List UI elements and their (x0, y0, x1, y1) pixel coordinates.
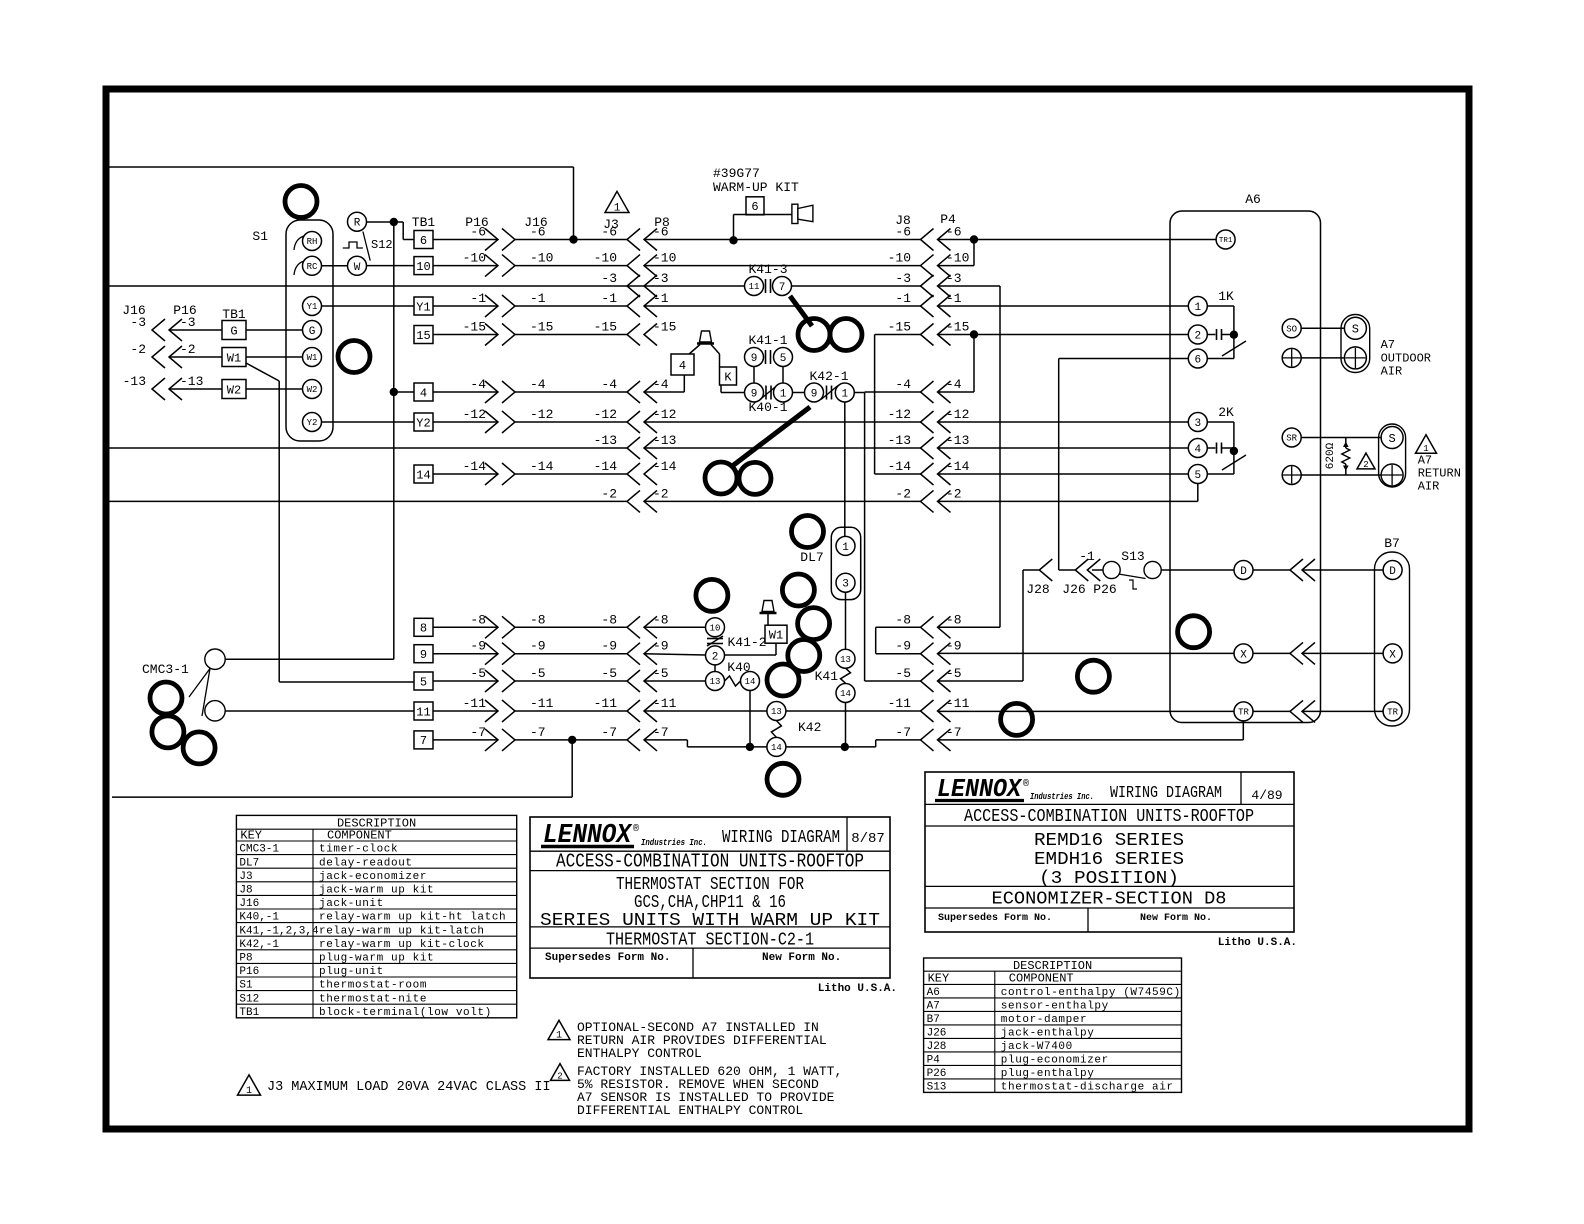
wire row -5 left (433, 680, 498, 682)
svg-text:10: 10 (416, 260, 430, 274)
svg-text:-15: -15 (946, 320, 969, 335)
horn connector warm-up kit (792, 204, 798, 223)
wire row -13 from frame (110, 447, 628, 449)
svg-text:W2: W2 (307, 385, 318, 395)
svg-text:REMD16 SERIES: REMD16 SERIES (1034, 831, 1184, 851)
svg-text:-11: -11 (463, 696, 487, 711)
svg-text:ECONOMIZER-SECTION D8: ECONOMIZER-SECTION D8 (992, 890, 1227, 910)
svg-text:-14: -14 (888, 459, 912, 474)
svg-text:-5: -5 (946, 666, 962, 681)
wire row -9 left (433, 653, 498, 655)
wire CMC3-1 bottom to block 11 (225, 710, 414, 712)
svg-text:1: 1 (842, 542, 849, 554)
svg-text:14: 14 (771, 743, 782, 753)
svg-text:K41: K41 (815, 669, 839, 684)
svg-text:RH: RH (307, 237, 318, 247)
svg-text:-15: -15 (594, 320, 617, 335)
svg-text:K41-2: K41-2 (727, 635, 766, 650)
svg-text:W1: W1 (307, 353, 318, 363)
svg-text:2: 2 (712, 651, 719, 663)
svg-text:AIR: AIR (1381, 365, 1403, 379)
svg-text:Litho U.S.A.: Litho U.S.A. (818, 983, 897, 995)
terminal block TB1 14 (414, 465, 433, 483)
terminal SO (1282, 319, 1301, 338)
svg-text:Y1: Y1 (307, 302, 318, 312)
terminal block 5 (414, 672, 433, 690)
terminal A6-5 (1188, 465, 1207, 484)
svg-text:6: 6 (751, 200, 758, 214)
svg-text:-8: -8 (601, 612, 617, 627)
svg-text:-12: -12 (888, 407, 911, 422)
bold circle left of A6 (1077, 660, 1109, 692)
svg-text:Supersedes Form No.: Supersedes Form No. (545, 952, 670, 964)
svg-text:-4: -4 (470, 377, 486, 392)
svg-text:jack-economizer: jack-economizer (319, 871, 427, 883)
svg-text:J16: J16 (239, 898, 259, 910)
svg-text:2K: 2K (1218, 405, 1234, 420)
svg-text:thermostat-room: thermostat-room (319, 980, 427, 992)
svg-text:®: ® (1023, 778, 1029, 790)
svg-text:B7: B7 (1384, 536, 1400, 551)
svg-text:B7: B7 (927, 1014, 940, 1026)
wire A6 TR to B7 TR (1253, 710, 1290, 712)
svg-text:9: 9 (811, 388, 818, 400)
svg-text:plug-warm up kit: plug-warm up kit (319, 953, 434, 965)
svg-text:-11: -11 (530, 696, 554, 711)
svg-text:S1: S1 (239, 980, 253, 992)
sensor A7 return capsule (1379, 424, 1406, 487)
svg-text:-5: -5 (530, 666, 546, 681)
svg-text:relay-warm up kit-clock: relay-warm up kit-clock (319, 939, 485, 951)
bold circle inside A6 (1178, 616, 1210, 648)
svg-text:SERIES UNITS WITH WARM UP KIT: SERIES UNITS WITH WARM UP KIT (540, 911, 880, 931)
wire row -4 right segment (854, 392, 864, 394)
wire row -3 right (792, 285, 921, 287)
svg-text:2: 2 (1194, 330, 1201, 342)
svg-text:-15: -15 (530, 320, 553, 335)
wire vertical R feed down to CMC3-1 (393, 222, 395, 659)
bold circle above S1 (285, 186, 317, 218)
svg-text:CMC3-1: CMC3-1 (142, 662, 189, 677)
svg-text:-2: -2 (130, 342, 146, 357)
svg-text:-9: -9 (530, 639, 546, 654)
thermostat S1 outline (286, 220, 333, 441)
svg-text:P4: P4 (927, 1055, 941, 1067)
svg-text:-12: -12 (653, 407, 676, 422)
svg-text:A7: A7 (927, 1001, 940, 1013)
terminal block TB1 6 (414, 231, 433, 249)
wire -2 up to A6 pin 5 (1197, 484, 1199, 502)
svg-text:-8: -8 (946, 612, 962, 627)
svg-text:-5: -5 (653, 666, 669, 681)
svg-text:-13: -13 (946, 433, 969, 448)
terminal SR (1282, 428, 1301, 447)
wire buzzer to jack 4 (688, 345, 700, 356)
svg-text:-1: -1 (895, 291, 911, 306)
svg-text:New Form No.: New Form No. (762, 952, 841, 964)
svg-text:DL7: DL7 (239, 857, 259, 869)
bold circle below bus (767, 763, 799, 795)
svg-text:-14: -14 (653, 459, 677, 474)
svg-text:timer-clock: timer-clock (319, 844, 398, 856)
note J3 maximum load (238, 1075, 261, 1095)
svg-text:6: 6 (420, 234, 427, 248)
svg-text:-4: -4 (946, 377, 962, 392)
svg-text:relay-warm up kit-latch: relay-warm up kit-latch (319, 925, 485, 937)
svg-text:thermostat-nite: thermostat-nite (319, 993, 427, 1005)
wire A6-6 to J26 (1059, 358, 1189, 360)
wire -5 up to J28 (1022, 570, 1024, 681)
wire Y2 to block (322, 421, 415, 423)
svg-text:THERMOSTAT SECTION-C2-1: THERMOSTAT SECTION-C2-1 (606, 931, 814, 951)
warning triangle 2 at resistor (1357, 453, 1375, 469)
svg-text:14: 14 (840, 689, 851, 699)
svg-text:5: 5 (1194, 470, 1201, 482)
wire row -6 (433, 239, 498, 241)
svg-text:-3: -3 (895, 271, 911, 286)
note optional second A7 (548, 1020, 570, 1039)
svg-text:-10: -10 (946, 251, 969, 266)
svg-text:-3: -3 (601, 271, 617, 286)
svg-text:1: 1 (841, 388, 848, 400)
svg-text:-9: -9 (895, 639, 911, 654)
svg-text:Y1: Y1 (416, 300, 430, 314)
wire row -2 from frame (110, 500, 628, 502)
svg-text:S12: S12 (371, 238, 393, 252)
wire row -9 right to A6 X (876, 653, 921, 655)
delay readout DL7 (831, 527, 860, 599)
terminal RH (294, 236, 304, 250)
svg-text:-3: -3 (180, 315, 196, 330)
svg-text:P8: P8 (239, 953, 252, 965)
svg-text:P26: P26 (1093, 582, 1116, 597)
svg-text:-5: -5 (895, 666, 911, 681)
wire DL7 to K41 coil (845, 592, 847, 649)
buzzer symbol lower (760, 612, 777, 615)
terminal block TB1 Y2 (414, 413, 433, 431)
jumper -8 to -9 (875, 627, 877, 653)
svg-text:-1: -1 (946, 291, 962, 306)
wire row -1 (433, 305, 498, 307)
junction node -6/top feeder (569, 235, 577, 243)
svg-text:J8: J8 (239, 885, 252, 897)
svg-text:9: 9 (751, 388, 758, 400)
svg-text:-13: -13 (180, 374, 203, 389)
svg-text:-6: -6 (895, 225, 911, 240)
svg-text:13: 13 (771, 707, 782, 717)
terminal W (348, 256, 367, 275)
junction node R feed (390, 218, 398, 226)
relay coil K42 (767, 702, 786, 721)
svg-text:K41-3: K41-3 (748, 262, 787, 277)
wire warm-up kit to -6 row (734, 214, 792, 216)
wire row -11 left (433, 710, 498, 712)
terminal block TB1 G (222, 321, 246, 340)
svg-text:Industries Inc.: Industries Inc. (641, 838, 707, 848)
terminal Y2 (303, 413, 322, 432)
svg-text:-3: -3 (653, 271, 669, 286)
wire row -14 left (433, 473, 498, 475)
svg-text:COMPONENT: COMPONENT (327, 829, 392, 843)
svg-text:-9: -9 (946, 639, 962, 654)
svg-text:SR: SR (1286, 434, 1297, 444)
svg-text:(3 POSITION): (3 POSITION) (1039, 869, 1179, 889)
svg-text:K42: K42 (798, 720, 821, 735)
svg-text:11: 11 (416, 705, 430, 719)
svg-text:control-enthalpy (W7459C): control-enthalpy (W7459C) (1001, 987, 1181, 999)
svg-text:-2: -2 (895, 486, 911, 501)
svg-text:4/89: 4/89 (1251, 788, 1282, 803)
svg-text:-4: -4 (895, 377, 911, 392)
svg-text:1K: 1K (1218, 289, 1234, 304)
wire row -5 right to J28 (865, 680, 921, 682)
terminal Y1 (303, 297, 322, 316)
wire -6 to -10 tie (973, 240, 975, 266)
svg-text:-9: -9 (601, 639, 617, 654)
svg-text:-7: -7 (946, 725, 962, 740)
terminal block 11 (414, 702, 433, 720)
svg-text:-10: -10 (463, 251, 486, 266)
svg-text:-1: -1 (653, 291, 669, 306)
svg-text:TB1: TB1 (239, 1007, 259, 1019)
svg-text:-7: -7 (601, 725, 617, 740)
svg-text:7: 7 (420, 734, 427, 748)
junction node -15/-4 tie (970, 330, 978, 338)
svg-text:-1: -1 (601, 291, 617, 306)
svg-text:Litho U.S.A.: Litho U.S.A. (1218, 937, 1297, 949)
svg-text:New Form No.: New Form No. (1140, 913, 1212, 924)
svg-text:S13: S13 (1121, 549, 1144, 564)
svg-text:D: D (1389, 566, 1396, 578)
svg-text:-4: -4 (601, 377, 617, 392)
svg-text:-8: -8 (895, 612, 911, 627)
svg-text:P16: P16 (239, 966, 259, 978)
svg-text:CMC3-1: CMC3-1 (239, 844, 279, 856)
svg-text:-7: -7 (470, 725, 486, 740)
svg-text:THERMOSTAT SECTION FOR: THERMOSTAT SECTION FOR (616, 875, 804, 895)
svg-text:8: 8 (420, 622, 427, 636)
terminal A6-1 (1188, 297, 1207, 316)
bold circle right of -11 (1001, 703, 1033, 735)
wire K41 to bus (845, 703, 847, 747)
terminal block TB1 W2 (222, 380, 246, 399)
terminal W1 (303, 348, 322, 367)
wire G box to G circle (246, 329, 302, 331)
bold circles near K41-2 (696, 579, 728, 611)
svg-text:15: 15 (416, 329, 430, 343)
svg-text:R: R (354, 218, 361, 230)
svg-text:WARM-UP KIT: WARM-UP KIT (713, 180, 799, 195)
wire -7 drop to bottom feeder (571, 740, 573, 797)
svg-text:W2: W2 (227, 383, 241, 397)
junction node -6/-10 tie (970, 235, 978, 243)
wire row -7 bus (644, 739, 687, 741)
terminal RC (294, 261, 304, 275)
svg-text:-2: -2 (653, 486, 669, 501)
svg-text:jack-W7400: jack-W7400 (1001, 1041, 1073, 1053)
wire row -14 right (875, 473, 921, 475)
svg-text:RETURN: RETURN (1418, 467, 1461, 481)
wires K41-1 to K40-1 (753, 367, 755, 384)
svg-text:-13: -13 (123, 374, 146, 389)
svg-text:ACCESS-COMBINATION UNITS-ROOFT: ACCESS-COMBINATION UNITS-ROOFTOP (964, 807, 1254, 827)
svg-text:-15: -15 (653, 320, 676, 335)
svg-text:TR: TR (1238, 708, 1249, 718)
svg-text:G: G (230, 324, 237, 338)
wire K40-1 to K42-1 (793, 392, 805, 394)
svg-text:-3: -3 (130, 315, 146, 330)
svg-text:-9: -9 (653, 639, 669, 654)
wires SR/+ to A7 return (1301, 437, 1381, 439)
motor B7 outline (1375, 552, 1410, 726)
wire row -8 left (433, 626, 498, 628)
plug 6 warm-up kit (746, 197, 764, 215)
svg-text:-1: -1 (1079, 549, 1095, 564)
svg-text:EMDH16 SERIES: EMDH16 SERIES (1034, 850, 1184, 870)
control A6 outline (1170, 211, 1321, 723)
svg-text:motor-damper: motor-damper (1001, 1014, 1087, 1026)
svg-text:3: 3 (842, 579, 849, 591)
svg-text:J28: J28 (1026, 582, 1049, 597)
wire A6 D to B7 D (1253, 569, 1290, 571)
svg-text:-7: -7 (530, 725, 546, 740)
svg-text:-12: -12 (594, 407, 617, 422)
switch S12 blade and pulse symbol (363, 232, 370, 261)
wire row -11 right to A6 TR (786, 710, 921, 712)
svg-text:-8: -8 (470, 612, 486, 627)
wire row -4 left (394, 391, 415, 393)
svg-text:-5: -5 (601, 666, 617, 681)
wire CMC3-1 top to R feed (225, 658, 394, 660)
svg-text:-6: -6 (470, 225, 486, 240)
wire S13 to A6 D (1161, 569, 1233, 571)
terminal block TB1 15 (414, 326, 433, 344)
svg-text:Y2: Y2 (307, 418, 318, 428)
svg-text:S: S (1352, 323, 1359, 337)
wire K box to K40-1 (720, 385, 722, 393)
svg-text:-7: -7 (895, 725, 911, 740)
svg-text:X: X (1389, 649, 1396, 661)
svg-text:-12: -12 (463, 407, 486, 422)
svg-text:11: 11 (749, 282, 760, 292)
wire -3 drop to -8 jumper (999, 286, 1001, 627)
svg-text:Supersedes Form No.: Supersedes Form No. (938, 912, 1052, 924)
wire -15 to -14 link vertical (874, 335, 876, 475)
svg-text:K40,-1: K40,-1 (239, 912, 279, 924)
svg-text:13: 13 (840, 655, 851, 665)
wire -15 to -4 tie (973, 335, 975, 393)
svg-text:-11: -11 (653, 696, 677, 711)
svg-text:-4: -4 (653, 377, 669, 392)
svg-text:plug-enthalpy: plug-enthalpy (1001, 1068, 1095, 1080)
svg-text:-13: -13 (594, 433, 617, 448)
wire W1 diagonal to box5 feeder (246, 363, 279, 381)
svg-text:OUTDOOR: OUTDOOR (1381, 352, 1431, 366)
svg-text:ENTHALPY CONTROL: ENTHALPY CONTROL (577, 1046, 702, 1061)
wire vertical W1 feed down to box 5 (278, 381, 280, 682)
svg-text:-14: -14 (530, 459, 554, 474)
svg-text:-8: -8 (530, 612, 546, 627)
svg-text:5: 5 (780, 353, 787, 365)
svg-text:4: 4 (679, 359, 686, 373)
svg-text:Y2: Y2 (416, 416, 430, 430)
wire buzzer to K box (711, 345, 720, 355)
svg-text:COMPONENT: COMPONENT (1009, 972, 1074, 986)
svg-text:13: 13 (710, 677, 721, 687)
svg-text:-11: -11 (594, 696, 618, 711)
legend table right (924, 958, 1182, 1092)
svg-text:J26: J26 (927, 1028, 947, 1040)
svg-text:D: D (1240, 566, 1247, 578)
terminal A6-2 (1188, 325, 1207, 344)
svg-text:TB1: TB1 (412, 215, 436, 230)
terminal block TB1 Y1 (414, 297, 433, 315)
svg-text:K42-1: K42-1 (809, 369, 848, 384)
svg-text:7: 7 (779, 282, 786, 294)
terminal block TB1 4 (414, 383, 433, 401)
svg-text:K41-1: K41-1 (748, 333, 787, 348)
bold circle pair near K41-3 (798, 319, 830, 351)
svg-text:1: 1 (614, 203, 621, 215)
svg-text:W1: W1 (769, 629, 783, 643)
svg-text:sensor-enthalpy: sensor-enthalpy (1001, 1001, 1109, 1013)
buzzer symbol upper (697, 342, 714, 345)
svg-text:X: X (1240, 649, 1247, 661)
terminal plus return (1282, 466, 1301, 485)
wire row -12 (433, 421, 498, 423)
svg-text:-2: -2 (180, 342, 196, 357)
svg-text:-14: -14 (594, 459, 618, 474)
junction node -4 feed (390, 388, 398, 396)
svg-text:WIRING DIAGRAM: WIRING DIAGRAM (1110, 784, 1222, 803)
svg-text:-13: -13 (888, 433, 911, 448)
wire RC to W (322, 265, 348, 267)
jack box W1 lower (765, 625, 787, 643)
svg-text:1: 1 (246, 1086, 252, 1097)
svg-text:KEY: KEY (240, 829, 262, 843)
svg-text:K41,-1,2,3,4: K41,-1,2,3,4 (239, 925, 319, 937)
svg-text:S13: S13 (927, 1082, 947, 1094)
svg-text:3: 3 (1194, 418, 1201, 430)
svg-text:620Ω: 620Ω (1325, 442, 1337, 469)
svg-text:-14: -14 (463, 459, 487, 474)
svg-text:plug-economizer: plug-economizer (1001, 1055, 1109, 1067)
svg-text:TR1: TR1 (1219, 237, 1233, 245)
warning triangle 1 at return air (1416, 435, 1437, 453)
svg-text:DL7: DL7 (800, 550, 823, 565)
svg-text:-11: -11 (946, 696, 970, 711)
relay coil K41 (836, 649, 855, 668)
svg-text:-4: -4 (530, 377, 546, 392)
svg-text:jack-enthalpy: jack-enthalpy (1001, 1028, 1095, 1040)
terminal R (348, 212, 367, 231)
svg-text:GCS,CHA,CHP11 & 16: GCS,CHA,CHP11 & 16 (634, 893, 786, 913)
terminal block TB1 10 (414, 257, 433, 275)
bold circle pair below K42-1 (705, 462, 737, 494)
wire K40 to bus (749, 691, 751, 747)
terminal block 7 (414, 731, 433, 749)
svg-text:-3: -3 (946, 271, 962, 286)
junction node -7 drop (568, 736, 576, 744)
svg-text:plug-unit: plug-unit (319, 966, 384, 978)
terminal block TB1 W1 (222, 348, 246, 367)
svg-text:jack-warm up kit: jack-warm up kit (319, 885, 434, 897)
svg-text:jack-unit: jack-unit (319, 898, 384, 910)
svg-text:S1: S1 (252, 229, 268, 244)
svg-text:5: 5 (420, 675, 427, 689)
svg-text:®: ® (633, 823, 639, 835)
heavy lead from K42-1 (731, 407, 810, 467)
